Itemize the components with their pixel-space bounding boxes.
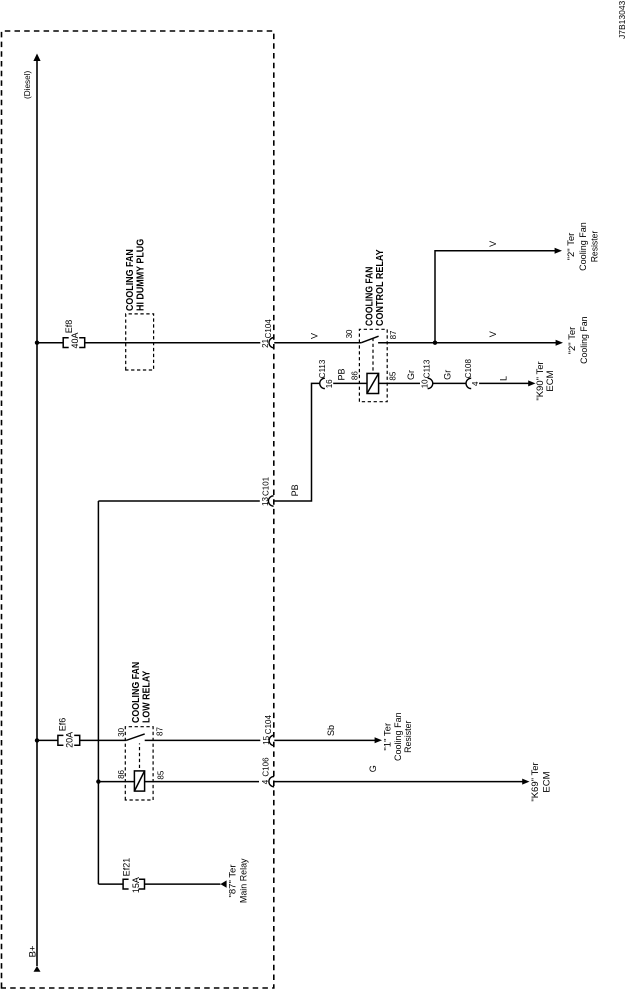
junction feed / low relay coil <box>96 779 100 783</box>
arrow to "K69" Ter ECM <box>522 779 529 785</box>
wire branch to resister <box>435 251 555 343</box>
relay COOLING FAN CONTROL RELAY dashed box <box>359 329 387 401</box>
svg-text:Cooling Fan: Cooling Fan <box>579 317 590 364</box>
svg-text:10: 10 <box>420 379 429 388</box>
svg-text:30: 30 <box>117 727 126 736</box>
svg-text:16: 16 <box>325 379 334 388</box>
svg-text:C106: C106 <box>262 757 271 777</box>
svg-text:Resister: Resister <box>403 721 414 753</box>
svg-text:Ef21: Ef21 <box>122 858 132 877</box>
svg-text:C104: C104 <box>264 319 273 339</box>
svg-text:"2" Ter: "2" Ter <box>566 233 577 261</box>
connector C108 pin 4 <box>464 359 480 389</box>
connector C104 pin 21 <box>261 319 274 348</box>
svg-text:COOLING FAN: COOLING FAN <box>365 267 376 327</box>
connector C101 pin 13 <box>261 476 274 506</box>
wire riser from feed to C101 pin 13 <box>98 500 259 502</box>
wire B+ bus <box>36 61 38 967</box>
svg-text:"2" Ter: "2" Ter <box>567 327 578 355</box>
fuse Ef6 20A <box>58 735 80 745</box>
svg-text:V: V <box>309 333 319 339</box>
wire fuse Ef8 to connector C104 pin 21 <box>85 342 261 344</box>
junction to resister branch <box>433 341 437 345</box>
svg-text:Resister: Resister <box>589 231 600 263</box>
wire PB from C101 riser <box>274 383 320 501</box>
dummy plug COOLING FAN HI DUMMY PLUG dashed box <box>126 314 154 370</box>
relay control coil <box>367 373 379 393</box>
wire relay 87 down to junction and fan arrow <box>378 342 556 344</box>
wire bus to fuse Ef8 <box>37 342 63 344</box>
svg-text:V: V <box>488 241 498 247</box>
svg-text:4: 4 <box>471 381 480 386</box>
svg-text:Ef6: Ef6 <box>58 718 68 732</box>
svg-text:86: 86 <box>117 769 126 778</box>
wire relay coil 85 to C106 pin 4 <box>145 781 259 783</box>
arrow to "2" Ter Cooling Fan Resister <box>555 248 562 254</box>
junction bus / Ef8 drop <box>35 341 39 345</box>
svg-text:30: 30 <box>345 329 354 338</box>
svg-text:C108: C108 <box>464 359 473 379</box>
arrow to "2" Ter Cooling Fan <box>556 340 563 346</box>
svg-text:85: 85 <box>156 770 165 779</box>
connector C104 pin 15 <box>262 715 274 746</box>
wire fuse Ef21 to main relay <box>145 883 221 885</box>
svg-text:LOW RELAY: LOW RELAY <box>142 670 153 723</box>
svg-text:ECM: ECM <box>542 771 553 792</box>
wire relay 87 to C104 pin 15 <box>145 739 261 741</box>
svg-text:L: L <box>499 376 509 381</box>
fuse Ef21 15A <box>123 879 144 889</box>
svg-text:87: 87 <box>155 727 164 736</box>
relay COOLING FAN LOW RELAY dashed box <box>125 727 153 800</box>
relay low coil link dashed <box>139 743 141 768</box>
relay low coil <box>134 771 144 791</box>
wire C113 pin10 to C108 pin 4, colour Gr <box>433 382 466 384</box>
connector C113 pin 16 <box>318 359 334 388</box>
svg-text:(Diesel): (Diesel) <box>23 71 32 99</box>
wire C104 pin15 to resister, colour Sb <box>274 739 375 741</box>
junction bus / Ef6 drop <box>35 738 39 742</box>
svg-text:C113: C113 <box>318 359 327 378</box>
wire junction to low relay coil 86 <box>98 781 134 783</box>
fusebox dashed border <box>2 31 274 988</box>
wire fuse Ef6 to relay contact 30 <box>80 739 127 741</box>
svg-text:Sb: Sb <box>326 725 336 736</box>
node B+ feed arrow <box>34 966 41 972</box>
svg-text:86: 86 <box>351 371 360 380</box>
svg-text:15A: 15A <box>131 877 141 893</box>
svg-text:"1" Ter: "1" Ter <box>382 723 393 751</box>
svg-text:20A: 20A <box>64 732 74 748</box>
arrow to "K90" Ter ECM <box>528 380 535 386</box>
svg-text:87: 87 <box>389 330 398 339</box>
relay control switch arm <box>361 336 378 343</box>
svg-text:C101: C101 <box>261 476 270 496</box>
wire C106 pin4 to ECM K69, colour G <box>274 781 522 783</box>
connector C106 pin 4 <box>261 757 274 787</box>
wire main relay feed horizontal <box>97 501 99 884</box>
svg-text:"87" Ter: "87" Ter <box>228 865 239 898</box>
relay control coil link dashed <box>372 338 374 371</box>
wire C108 pin4 to ECM K90, colour L <box>479 382 528 384</box>
svg-text:V: V <box>488 331 498 337</box>
node (Diesel) arrow <box>33 54 40 62</box>
wire bus to fuse Ef6 <box>37 739 58 741</box>
relay low switch arm <box>126 734 145 741</box>
svg-text:C104: C104 <box>264 715 273 735</box>
wire C113 pin16 to relay 86, colour PB <box>333 382 367 384</box>
svg-text:J7B13043: J7B13043 <box>617 0 626 39</box>
svg-text:HI DUMMY PLUG: HI DUMMY PLUG <box>135 239 146 311</box>
arrow from "87" Ter Main Relay (feed) <box>220 880 226 887</box>
svg-text:PB: PB <box>337 368 347 380</box>
wire feed corner to fuse Ef21 <box>98 883 123 885</box>
svg-text:CONTROL RELAY: CONTROL RELAY <box>375 249 386 326</box>
wire relay 85 to C113 pin 10, colour Gr <box>379 382 420 384</box>
fuse Ef8 40A <box>63 338 84 348</box>
svg-text:G: G <box>368 765 378 772</box>
svg-text:85: 85 <box>389 371 398 380</box>
svg-text:PB: PB <box>290 484 300 496</box>
svg-text:Cooling Fan: Cooling Fan <box>578 222 589 271</box>
arrow to "1" Ter Cooling Fan Resister <box>375 737 382 743</box>
wire C104 pin21 to relay contact 30, colour V <box>274 342 361 344</box>
connector C113 pin 10 <box>420 359 432 388</box>
svg-text:C113: C113 <box>423 359 432 378</box>
svg-text:Main Relay: Main Relay <box>238 858 249 903</box>
svg-text:B+: B+ <box>27 945 38 957</box>
svg-text:"K69" Ter: "K69" Ter <box>530 762 541 801</box>
svg-text:Ef8: Ef8 <box>64 320 74 334</box>
svg-text:Gr: Gr <box>442 370 452 380</box>
svg-text:40A: 40A <box>70 332 80 348</box>
svg-text:ECM: ECM <box>545 370 556 391</box>
svg-text:Gr: Gr <box>406 370 416 380</box>
